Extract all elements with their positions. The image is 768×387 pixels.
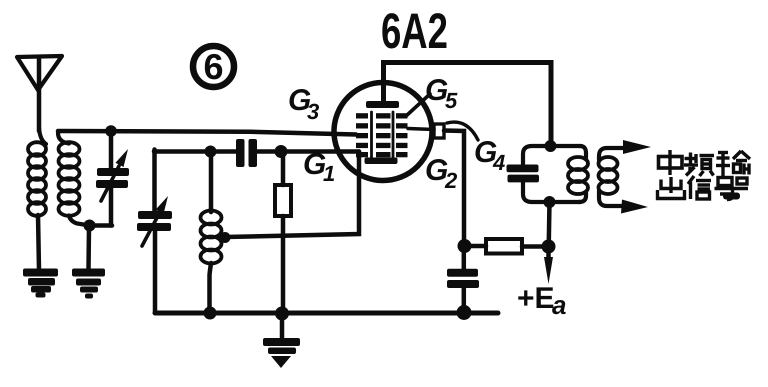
svg-text:2: 2 (444, 168, 458, 193)
tube internal grid dashes (356, 113, 408, 157)
node junction oscillator row / L3 (205, 146, 217, 158)
label +Ea (517, 282, 566, 320)
G4 pointer arc (447, 122, 478, 140)
node junction G2 branch / R2 (458, 239, 472, 253)
wire to ground 2 (86, 226, 91, 271)
wire top row to tube grid G3 (58, 131, 356, 135)
output arrow top (623, 140, 651, 154)
svg-text:3: 3 (307, 99, 319, 124)
coil L3 oscillator (201, 152, 222, 314)
svg-text:6A2: 6A2 (381, 3, 448, 59)
variable capacitor C2 oscillator tuning (137, 150, 172, 314)
node junction C3 / R1 (275, 145, 288, 158)
label G4 (474, 136, 505, 175)
node L3 bottom on bus (204, 307, 217, 320)
output arrow bottom (621, 200, 648, 214)
tube right pin square (434, 124, 444, 138)
label G5 (425, 74, 458, 113)
tube right pin link (408, 129, 434, 130)
wire oscillator row G1 (154, 149, 359, 154)
node tap on L3 (220, 232, 231, 243)
antenna (17, 56, 62, 131)
node tank bottom (544, 196, 556, 208)
tube internal grid vertical rails (372, 112, 394, 158)
label chinese IF output line 2 (drawn glyphs) (658, 176, 749, 200)
char pin (689, 153, 692, 166)
coil L2 antenna secondary (58, 133, 90, 226)
wire pin to G2 branch (444, 131, 464, 247)
char hao (718, 178, 732, 186)
capacitor C4 bypass (447, 269, 479, 288)
svg-text:a: a (552, 290, 566, 320)
wire corner down to cathode tap (225, 152, 359, 238)
label circled 6 (193, 46, 234, 87)
node bypass cap on bus (457, 305, 472, 320)
node ground stem on bus (275, 307, 289, 321)
char chu (669, 177, 672, 193)
capacitor C5 tank (507, 165, 540, 183)
node junction top wire / C1 branch (105, 125, 117, 137)
G5 pointer line (406, 94, 430, 116)
ground main (263, 313, 300, 368)
tube V1 6A2 envelope (334, 83, 432, 181)
coil L5 IF secondary (599, 148, 631, 206)
ground antenna coil (23, 269, 58, 298)
node junction secondary bottom (84, 220, 96, 232)
tube internal top bar (366, 101, 399, 108)
wire secondary bottom node (90, 223, 113, 228)
wire tank feed down to +Ea node (547, 202, 552, 242)
wire L1 bottom to ground (38, 215, 39, 270)
variable capacitor C1 antenna tuning (96, 131, 129, 226)
char zhong (659, 157, 683, 169)
+Ea arrow (544, 250, 553, 284)
label G1 (303, 148, 335, 186)
svg-text:6: 6 (203, 46, 223, 87)
node junction +Ea (542, 240, 556, 254)
tube top pin wire to plate supply (384, 63, 552, 147)
svg-text:1: 1 (323, 161, 335, 186)
IF transformer tank outline left (523, 146, 580, 202)
ground secondary (72, 269, 105, 299)
svg-text:4: 4 (492, 150, 505, 175)
wire C4 leads (462, 250, 467, 310)
svg-text:+E: +E (517, 282, 555, 315)
node tank top (545, 140, 557, 152)
label G3 (288, 84, 319, 124)
bottom bus wire (155, 311, 498, 316)
char shu (718, 151, 728, 154)
tube internal bottom bar (365, 158, 398, 165)
label G2 (425, 154, 458, 193)
resistor R2 dropping (464, 239, 544, 254)
label chinese IF output line 1 (drawn glyphs) (659, 150, 751, 176)
svg-text:5: 5 (445, 88, 458, 113)
coil L4 IF primary (568, 146, 588, 202)
char xin (688, 176, 694, 184)
coil L1 antenna primary (28, 128, 46, 216)
resistor R1 grid leak (275, 152, 291, 314)
capacitor C3 oscillator grid coupling (236, 139, 257, 167)
